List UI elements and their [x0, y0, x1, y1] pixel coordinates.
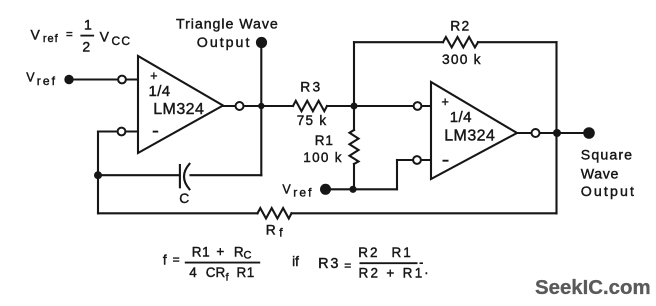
svg-text:R3: R3 — [318, 256, 340, 272]
svg-text:V: V — [100, 28, 110, 44]
svg-text:R2 + R1: R2 + R1 — [359, 266, 425, 281]
svg-text:Output: Output — [581, 184, 636, 200]
svg-text:LM324: LM324 — [153, 101, 204, 118]
svg-text:=: = — [344, 258, 351, 272]
svg-text:+: + — [216, 244, 224, 259]
svg-text:+: + — [442, 95, 449, 109]
svg-text:Square: Square — [581, 148, 633, 164]
svg-text:300 k: 300 k — [442, 52, 482, 67]
svg-text:ref: ref — [37, 74, 57, 88]
svg-text:R: R — [266, 222, 276, 237]
svg-text:R1: R1 — [237, 265, 255, 280]
svg-text:f: f — [163, 253, 167, 268]
svg-text:.: . — [425, 262, 429, 277]
svg-text:f: f — [226, 271, 229, 283]
svg-text:C: C — [179, 191, 189, 206]
svg-text:if: if — [292, 254, 299, 269]
svg-text:1/4: 1/4 — [450, 109, 472, 126]
svg-text:Output: Output — [197, 35, 252, 51]
svg-text:R1: R1 — [192, 245, 210, 260]
svg-text:LM324: LM324 — [444, 128, 495, 145]
svg-text:+: + — [150, 69, 157, 83]
svg-text:R2: R2 — [450, 19, 470, 34]
svg-text:=: = — [66, 29, 73, 41]
svg-text:75 k: 75 k — [297, 113, 328, 128]
svg-text:V: V — [31, 26, 41, 42]
svg-text:CR: CR — [206, 265, 226, 280]
svg-text:V: V — [26, 70, 35, 84]
svg-text:Triangle Wave: Triangle Wave — [176, 17, 279, 33]
svg-text:1: 1 — [84, 16, 92, 32]
svg-text:4: 4 — [189, 265, 197, 280]
svg-text:=: = — [173, 253, 180, 267]
svg-text:C: C — [244, 250, 252, 262]
svg-text:1/4: 1/4 — [149, 83, 171, 100]
svg-text:R1: R1 — [315, 133, 334, 148]
svg-text:SeekIC.com: SeekIC.com — [535, 277, 651, 299]
svg-text:R3: R3 — [300, 80, 322, 95]
svg-text:ref: ref — [43, 33, 59, 45]
svg-text:100 k: 100 k — [303, 150, 343, 165]
svg-text:ref: ref — [293, 186, 313, 200]
svg-text:R2: R2 — [358, 245, 379, 260]
svg-text:R: R — [234, 245, 244, 260]
svg-text:Wave: Wave — [581, 166, 619, 182]
svg-text:CC: CC — [112, 34, 132, 48]
svg-text:V: V — [282, 183, 291, 197]
svg-text:R1: R1 — [392, 245, 413, 260]
svg-text:2: 2 — [82, 38, 90, 54]
